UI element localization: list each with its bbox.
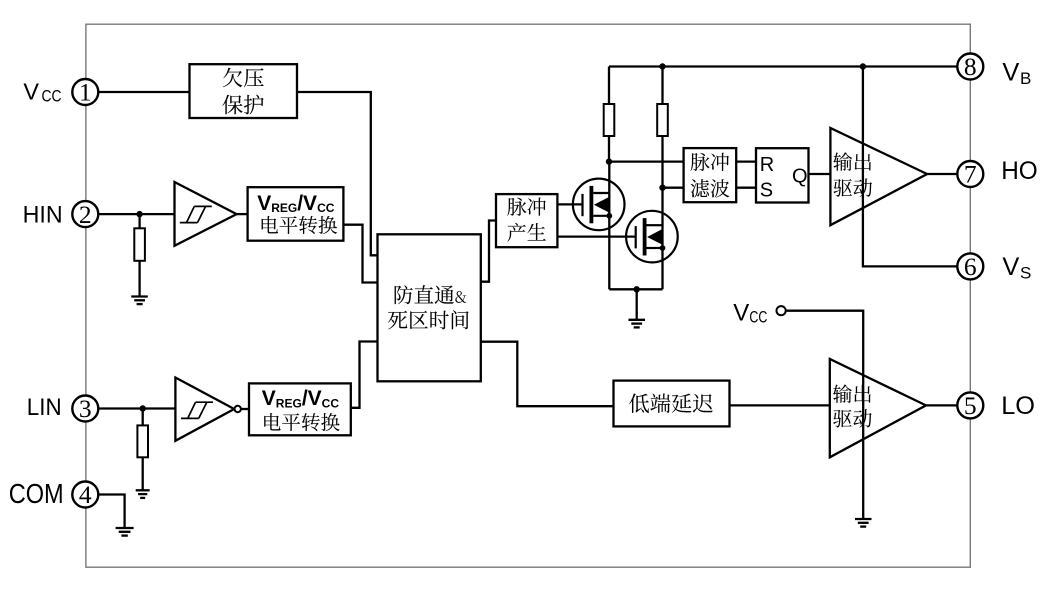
wire source node down	[636, 289, 638, 320]
wire R1 bottom to node A	[608, 136, 610, 162]
ground LIN pulldown	[136, 490, 150, 498]
svg-text:V: V	[733, 299, 749, 326]
svg-text:V: V	[1002, 253, 1019, 281]
wire LIN pulldown resistor bottom to ground	[142, 457, 144, 490]
svg-text:V: V	[23, 78, 39, 104]
svg-text:7: 7	[964, 160, 977, 189]
pin 8 (VB)	[957, 52, 983, 81]
wire dead-time to pulse generator	[481, 221, 496, 282]
pin 3 (LIN)	[72, 394, 98, 423]
wire HIN pulldown resistor bottom to ground	[138, 261, 140, 297]
wire HIN pulldown resistor top	[138, 214, 140, 228]
svg-text:1: 1	[79, 78, 92, 107]
hysteresis symbol (HIN)	[180, 206, 212, 222]
resistor R1 (level shift load)	[604, 104, 615, 136]
wire R2 bottom to node B	[661, 136, 663, 188]
junction VB rail / driver branch	[860, 63, 866, 69]
resistor HIN pulldown	[134, 228, 145, 260]
hysteresis symbol (LIN)	[181, 402, 213, 418]
wire latch Q to high-side driver	[809, 173, 830, 175]
svg-text:2: 2	[79, 200, 92, 229]
wire VCC bias to low-side driver and ground	[786, 311, 863, 519]
transistor M2 (high-side level shift)	[626, 211, 678, 263]
text 输出 (HO)	[833, 152, 871, 171]
block level shift (LIN)	[249, 383, 351, 435]
svg-text:S: S	[1020, 264, 1031, 283]
svg-text:B: B	[1020, 69, 1031, 88]
latch RS flip-flop	[756, 148, 809, 202]
wire VB rail left drop to resistor R1	[608, 67, 610, 105]
wire pulse generator to M2 gate	[557, 235, 635, 237]
text 欠压	[223, 68, 264, 88]
resistor LIN pulldown	[137, 425, 148, 457]
wire VB rail to resistor R2	[661, 67, 663, 105]
junction node A (R1 / M1 drain / filter R)	[606, 158, 612, 164]
resistor R2 (level shift load)	[657, 104, 668, 136]
junction HIN input node	[136, 211, 142, 217]
text 驱动 (HO)	[834, 178, 873, 196]
schmitt trigger buffer (HIN)	[175, 182, 237, 246]
text 电平转换 (HIN)	[262, 216, 337, 234]
text 输出 (LO)	[833, 384, 871, 403]
svg-text:6: 6	[964, 252, 977, 281]
block undervoltage protection	[190, 64, 298, 118]
wire VB rail branch through driver to VS	[863, 67, 957, 267]
transistor M1 (high-side level shift)	[573, 179, 625, 231]
svg-text:Q: Q	[792, 166, 808, 188]
text 死区时间	[388, 310, 469, 329]
wire M2 drain-source rail	[661, 188, 663, 290]
wire high-side driver output to HO pin7	[927, 173, 957, 175]
wire node A to pulse filter R input	[609, 160, 684, 162]
ground HIN pulldown	[131, 297, 148, 305]
wire level-shift output to dead-time block (HIN)	[343, 225, 377, 283]
wire source rail to ground	[609, 288, 662, 290]
pin 4 (COM)	[72, 480, 98, 509]
wire LIN pin3 to schmitt inverter	[98, 407, 175, 409]
pin 1 (VCC)	[72, 78, 98, 107]
wire M1 drain-source rail	[608, 162, 610, 290]
wire schmitt inverter output to level-shift (LIN)	[241, 408, 249, 410]
svg-text:CC: CC	[749, 309, 767, 327]
block low-side delay	[614, 381, 730, 427]
op-amp style output driver (low side)	[830, 359, 926, 457]
svg-text:3: 3	[79, 394, 92, 423]
svg-text:COM: COM	[9, 478, 64, 509]
block pulse filter	[684, 148, 737, 202]
wire VB rail	[609, 65, 957, 67]
block level shift (HIN)	[248, 187, 344, 241]
text 滤波	[691, 179, 730, 197]
wire pulse generator to M1 gate	[557, 203, 582, 205]
wire LIN pulldown resistor top	[142, 409, 144, 426]
text 脉冲 (gen)	[507, 198, 545, 216]
wire low-side driver output to LO pin5	[926, 404, 957, 406]
text 电平转换 (LIN)	[264, 413, 339, 431]
op-amp style output driver (high side)	[830, 128, 927, 225]
wire UVLO output to dead-time block	[297, 92, 378, 255]
svg-text:S: S	[760, 180, 773, 202]
ground COM	[116, 528, 134, 536]
ground MOSFET sources	[629, 320, 646, 328]
wire pulse filter S to latch	[736, 187, 755, 189]
inverter bubble (LIN)	[235, 406, 241, 412]
junction source rail	[634, 286, 640, 292]
junction VB rail / R2	[659, 63, 665, 69]
wire low-side delay to driver	[730, 404, 830, 406]
text 保护	[222, 95, 263, 115]
text 防直通&	[395, 285, 467, 304]
wire COM pin4 to ground	[98, 495, 124, 529]
wire pulse filter R to latch	[736, 160, 755, 162]
block pulse generator	[496, 194, 557, 247]
svg-text:HO: HO	[1001, 157, 1037, 185]
junction node B (R2 / M2 drain / filter S)	[659, 185, 665, 191]
pin 2 (HIN)	[72, 200, 98, 229]
ground low-side driver	[855, 519, 872, 527]
svg-text:V: V	[1002, 59, 1019, 87]
wire node B to pulse filter S input	[663, 187, 684, 189]
svg-text:LO: LO	[1001, 392, 1035, 420]
wire level-shift output to dead-time block (LIN)	[351, 342, 378, 408]
svg-text:HIN: HIN	[23, 202, 63, 229]
text 低端延迟	[629, 393, 713, 412]
svg-text:4: 4	[79, 480, 92, 509]
text 驱动 (LO)	[833, 409, 872, 427]
text 产生	[507, 223, 545, 242]
IC boundary box	[86, 24, 970, 567]
wire dead-time to low-side delay	[481, 342, 614, 407]
svg-text:LIN: LIN	[27, 394, 62, 421]
text 脉冲 (filter)	[691, 153, 729, 171]
pin 6 (VS)	[957, 252, 983, 281]
pin 5 (LO)	[957, 391, 983, 420]
pin 7 (HO)	[957, 160, 983, 189]
wire schmitt output to level-shift (HIN)	[237, 213, 248, 215]
wire VCC pin1 to UVLO block	[98, 91, 189, 93]
svg-text:CC: CC	[42, 86, 62, 105]
svg-text:5: 5	[964, 391, 977, 420]
wire HIN pin2 to schmitt buffer	[98, 213, 174, 215]
block anti shoot-through & dead time	[378, 234, 481, 381]
junction LIN input node	[140, 405, 146, 411]
node VCC (low-side supply) open terminal	[777, 306, 786, 315]
svg-text:R: R	[760, 154, 774, 176]
svg-text:8: 8	[964, 52, 977, 81]
schmitt trigger inverter (LIN)	[175, 378, 234, 441]
